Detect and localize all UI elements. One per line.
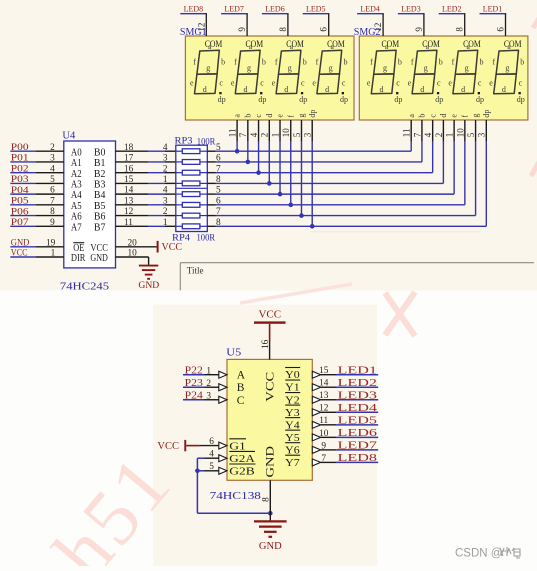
svg-text:c: c (478, 78, 482, 87)
svg-text:19: 19 (46, 238, 56, 248)
svg-text:f: f (193, 58, 196, 67)
svg-text:LED5: LED5 (338, 414, 378, 426)
svg-text:1: 1 (51, 249, 56, 259)
svg-text:g: g (247, 64, 251, 73)
svg-text:dp: dp (517, 95, 525, 104)
svg-text:3: 3 (50, 154, 55, 164)
svg-text:1: 1 (163, 218, 168, 228)
svg-text:f: f (275, 58, 278, 67)
svg-text:d: d (244, 85, 248, 94)
svg-text:2: 2 (434, 133, 444, 138)
svg-text:d: d (461, 85, 465, 94)
svg-text:5: 5 (50, 175, 55, 185)
svg-text:12: 12 (373, 23, 383, 32)
svg-text:7: 7 (216, 164, 221, 174)
svg-text:e: e (190, 79, 194, 88)
svg-text:8: 8 (278, 27, 288, 32)
svg-text:dp: dp (394, 95, 402, 104)
svg-text:g: g (288, 64, 292, 73)
svg-text:LED4: LED4 (360, 4, 380, 14)
svg-text:9: 9 (237, 27, 247, 32)
svg-text:LED7: LED7 (338, 439, 378, 451)
svg-text:dp: dp (482, 110, 491, 118)
svg-text:g: g (465, 64, 469, 73)
svg-text:g: g (206, 64, 210, 73)
svg-text:f: f (411, 58, 414, 67)
svg-text:g: g (297, 114, 306, 118)
svg-text:LED8: LED8 (184, 4, 204, 14)
svg-text:c: c (428, 114, 437, 118)
svg-text:12: 12 (196, 23, 206, 32)
svg-text:c: c (219, 78, 223, 87)
svg-text:c: c (396, 78, 400, 87)
svg-text:6: 6 (209, 437, 214, 447)
svg-text:7: 7 (412, 132, 422, 137)
svg-text:f: f (234, 58, 237, 67)
svg-text:5: 5 (216, 143, 221, 153)
svg-text:4: 4 (423, 132, 433, 137)
svg-text:6: 6 (496, 27, 506, 32)
svg-text:74HC245: 74HC245 (60, 281, 109, 292)
svg-text:B7: B7 (94, 221, 106, 233)
svg-text:9: 9 (50, 218, 55, 228)
svg-text:15: 15 (124, 175, 134, 185)
svg-text:d: d (502, 85, 506, 94)
svg-text:11: 11 (402, 129, 412, 138)
svg-text:c: c (260, 78, 264, 87)
svg-text:8: 8 (262, 497, 272, 502)
svg-text:c: c (437, 78, 441, 87)
svg-text:LED7: LED7 (224, 4, 244, 14)
svg-text:2: 2 (163, 164, 168, 174)
svg-text:2: 2 (260, 133, 270, 138)
svg-text:A7: A7 (71, 221, 82, 233)
svg-text:6: 6 (216, 154, 221, 164)
svg-text:f: f (316, 58, 319, 67)
svg-text:dp: dp (299, 95, 307, 104)
svg-text:4: 4 (163, 186, 168, 196)
svg-text:LED6: LED6 (338, 427, 378, 439)
svg-text:d: d (265, 114, 274, 118)
svg-text:b: b (520, 58, 524, 67)
svg-text:e: e (450, 114, 459, 118)
svg-text:2: 2 (50, 143, 55, 153)
svg-text:VCC: VCC (265, 371, 277, 401)
svg-text:Title: Title (187, 266, 204, 276)
svg-text:8: 8 (216, 175, 221, 185)
svg-text:100R: 100R (197, 138, 216, 148)
svg-text:GND: GND (259, 541, 282, 552)
svg-text:16: 16 (261, 339, 271, 349)
svg-text:11: 11 (228, 129, 238, 138)
svg-text:1: 1 (163, 175, 168, 185)
svg-text:LED8: LED8 (338, 452, 378, 464)
svg-text:13: 13 (319, 391, 329, 401)
svg-text:5: 5 (216, 186, 221, 196)
svg-text:f: f (286, 115, 295, 118)
svg-text:Y7: Y7 (285, 458, 300, 469)
svg-text:g: g (471, 114, 480, 118)
svg-text:12: 12 (124, 207, 134, 217)
svg-text:GND: GND (265, 446, 277, 478)
svg-text:DIR: DIR (71, 252, 86, 264)
svg-text:c: c (301, 78, 305, 87)
svg-text:g: g (329, 64, 333, 73)
svg-text:e: e (312, 79, 316, 88)
svg-text:LED4: LED4 (338, 402, 378, 414)
svg-text:14: 14 (124, 186, 134, 196)
svg-text:6: 6 (216, 196, 221, 206)
svg-text:e: e (367, 79, 371, 88)
svg-text:3: 3 (303, 132, 313, 137)
svg-text:RP4: RP4 (172, 233, 190, 243)
svg-text:7: 7 (238, 132, 248, 137)
svg-text:5: 5 (292, 132, 302, 137)
svg-text:g: g (424, 64, 428, 73)
svg-text:9: 9 (321, 441, 326, 451)
svg-text:d: d (203, 85, 207, 94)
svg-text:f: f (460, 115, 469, 118)
svg-text:e: e (272, 79, 276, 88)
svg-text:7: 7 (216, 207, 221, 217)
svg-text:f: f (492, 58, 495, 67)
svg-text:b: b (303, 58, 307, 67)
svg-text:18: 18 (124, 143, 134, 153)
svg-text:VCC: VCC (162, 242, 183, 253)
svg-text:4: 4 (249, 132, 259, 137)
svg-text:15: 15 (319, 366, 329, 376)
svg-text:8: 8 (216, 218, 221, 228)
svg-text:14: 14 (319, 379, 329, 389)
svg-text:b: b (398, 58, 402, 67)
svg-text:b: b (221, 58, 225, 67)
svg-text:74HC138: 74HC138 (210, 490, 262, 502)
svg-text:5: 5 (209, 462, 214, 472)
svg-text:C: C (237, 395, 245, 407)
svg-text:RP3: RP3 (175, 137, 193, 147)
svg-text:LED5: LED5 (306, 4, 326, 14)
svg-text:f: f (370, 58, 373, 67)
svg-text:9: 9 (414, 27, 424, 32)
svg-text:A: A (237, 370, 246, 382)
svg-text:b: b (344, 58, 348, 67)
svg-text:CSDN @: CSDN @ (455, 548, 502, 560)
svg-text:5: 5 (466, 132, 476, 137)
svg-text:LED6: LED6 (265, 4, 285, 14)
svg-text:4: 4 (209, 450, 214, 460)
svg-text:17: 17 (124, 154, 134, 164)
svg-text:c: c (342, 78, 346, 87)
svg-text:b: b (262, 58, 266, 67)
svg-text:f: f (452, 58, 455, 67)
svg-text:10: 10 (319, 429, 329, 439)
svg-text:3: 3 (163, 154, 168, 164)
svg-text:LED1: LED1 (338, 364, 378, 376)
svg-text:LED2: LED2 (338, 377, 378, 389)
svg-text:LED2: LED2 (442, 4, 462, 14)
svg-text:d: d (284, 85, 288, 94)
svg-text:100R: 100R (197, 234, 216, 244)
svg-text:g: g (505, 64, 509, 73)
svg-text:a: a (407, 114, 416, 118)
svg-text:LED3: LED3 (401, 4, 421, 14)
svg-text:e: e (448, 79, 452, 88)
svg-text:11: 11 (319, 416, 328, 426)
svg-text:3: 3 (477, 132, 487, 137)
svg-text:LED3: LED3 (338, 389, 378, 401)
svg-text:dp: dp (340, 95, 348, 104)
svg-text:dp: dp (258, 95, 266, 104)
svg-text:d: d (420, 85, 424, 94)
svg-text:c: c (519, 78, 523, 87)
svg-text:dp: dp (435, 95, 443, 104)
svg-text:8: 8 (50, 207, 55, 217)
svg-text:U4: U4 (62, 131, 76, 142)
svg-text:VCC: VCC (157, 441, 179, 452)
svg-text:e: e (276, 114, 285, 118)
svg-text:U5: U5 (226, 347, 241, 358)
svg-text:e: e (489, 79, 493, 88)
svg-text:dp: dp (308, 110, 317, 118)
svg-text:a: a (233, 114, 242, 118)
svg-text:e: e (408, 79, 412, 88)
svg-text:LED1: LED1 (483, 4, 503, 14)
svg-text:d: d (380, 85, 384, 94)
svg-text:G2B: G2B (229, 466, 255, 477)
svg-text:dp: dp (476, 95, 484, 104)
svg-text:b: b (418, 114, 427, 118)
svg-text:12: 12 (319, 404, 329, 414)
svg-text:7: 7 (321, 454, 326, 464)
svg-text:10: 10 (281, 128, 291, 138)
svg-text:6: 6 (50, 186, 55, 196)
svg-text:4: 4 (50, 164, 55, 174)
svg-text:4: 4 (163, 143, 168, 153)
svg-text:b: b (480, 58, 484, 67)
svg-text:VCC: VCC (258, 308, 281, 320)
svg-text:1: 1 (270, 133, 280, 138)
svg-text:c: c (254, 114, 263, 118)
svg-text:3: 3 (163, 196, 168, 206)
svg-text:8: 8 (455, 27, 465, 32)
svg-text:13: 13 (124, 196, 134, 206)
svg-text:G2A: G2A (229, 454, 256, 465)
svg-text:b: b (439, 58, 443, 67)
svg-text:1: 1 (445, 133, 455, 138)
svg-text:2: 2 (163, 207, 168, 217)
svg-text:GND: GND (138, 280, 159, 291)
svg-text:e: e (231, 79, 235, 88)
svg-text:6: 6 (319, 27, 329, 32)
svg-text:11: 11 (124, 218, 133, 228)
svg-text:b: b (243, 114, 252, 118)
svg-text:g: g (383, 64, 387, 73)
svg-text:7: 7 (50, 196, 55, 206)
svg-text:10: 10 (455, 128, 465, 138)
svg-text:dp: dp (218, 95, 226, 104)
svg-text:d: d (439, 114, 448, 118)
svg-text:GND: GND (90, 252, 108, 264)
svg-text:d: d (325, 85, 329, 94)
svg-text:16: 16 (124, 164, 134, 174)
svg-text:B: B (237, 382, 245, 394)
